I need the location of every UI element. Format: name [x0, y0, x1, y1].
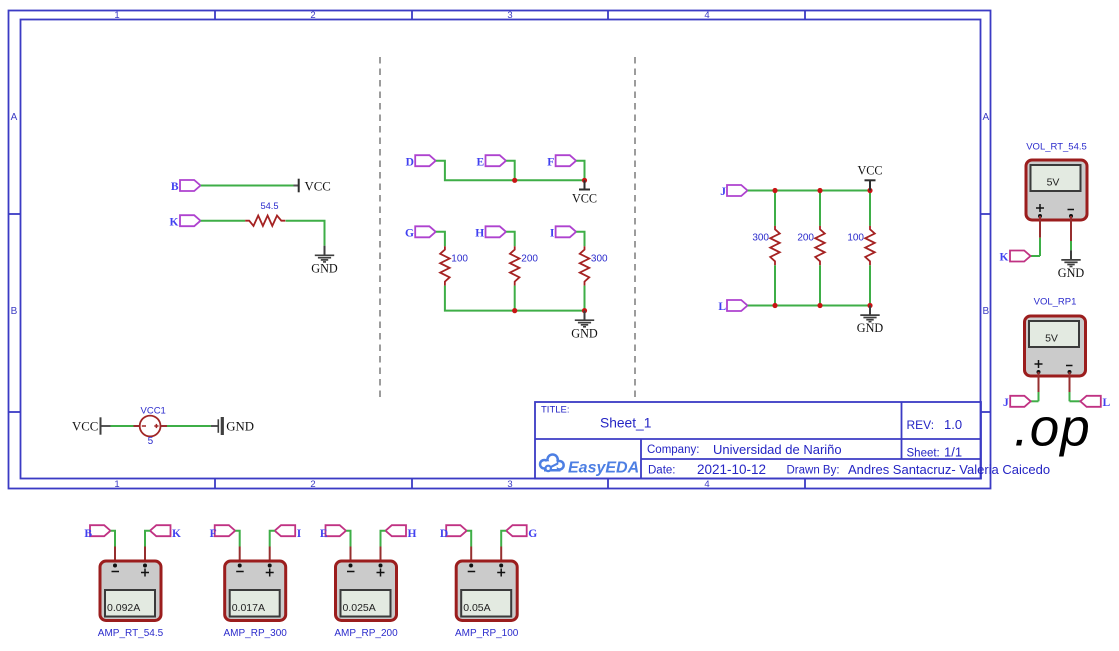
svg-text:I: I [550, 228, 555, 240]
svg-text:2: 2 [310, 10, 315, 21]
svg-text:J: J [1003, 397, 1009, 409]
svg-text:GND: GND [1058, 266, 1085, 280]
svg-text:VCC: VCC [305, 180, 331, 194]
svg-text:G: G [528, 528, 537, 540]
svg-text:100: 100 [847, 232, 864, 243]
svg-text:4: 4 [704, 479, 709, 490]
svg-text:54.5: 54.5 [260, 201, 278, 211]
svg-text:1/1: 1/1 [944, 445, 962, 460]
svg-text:VCC: VCC [857, 164, 882, 178]
svg-text:B: B [84, 528, 92, 540]
svg-text:2: 2 [310, 479, 315, 490]
svg-text:.op: .op [1014, 399, 1091, 458]
svg-text:B: B [171, 181, 179, 193]
svg-text:Sheet_1: Sheet_1 [600, 415, 651, 430]
svg-text:TITLE:: TITLE: [541, 405, 570, 416]
svg-text:E: E [477, 156, 485, 168]
svg-text:300: 300 [591, 254, 608, 265]
svg-text:4: 4 [704, 10, 709, 21]
svg-text:GND: GND [226, 420, 254, 434]
svg-text:K: K [1000, 252, 1009, 264]
svg-text:EasyEDA: EasyEDA [568, 460, 639, 477]
svg-text:B: B [11, 306, 18, 317]
svg-text:F: F [210, 528, 217, 540]
svg-text:VCC1: VCC1 [141, 406, 166, 417]
svg-text:200: 200 [797, 232, 814, 243]
svg-text:Date:: Date: [648, 464, 676, 476]
svg-text:H: H [408, 528, 417, 540]
svg-text:E: E [320, 528, 328, 540]
svg-text:L: L [1103, 397, 1111, 409]
svg-text:0.05A: 0.05A [463, 602, 490, 614]
svg-text:A: A [982, 112, 989, 123]
svg-text:AMP_RT_54.5: AMP_RT_54.5 [98, 628, 164, 639]
svg-text:1.0: 1.0 [944, 417, 962, 432]
svg-text:VOL_RT_54.5: VOL_RT_54.5 [1026, 141, 1087, 152]
svg-text:I: I [297, 528, 302, 540]
svg-text:GND: GND [857, 321, 884, 335]
svg-text:GND: GND [571, 326, 598, 340]
svg-text:K: K [170, 216, 179, 228]
svg-text:J: J [720, 186, 726, 198]
svg-text:0.025A: 0.025A [343, 602, 376, 614]
svg-text:F: F [547, 156, 554, 168]
svg-text:A: A [11, 112, 18, 123]
svg-text:VCC: VCC [572, 192, 597, 206]
svg-text:K: K [172, 528, 181, 540]
svg-text:1: 1 [114, 10, 119, 21]
svg-text:0.092A: 0.092A [107, 602, 140, 614]
svg-text:Sheet:: Sheet: [907, 448, 940, 460]
svg-text:AMP_RP_100: AMP_RP_100 [455, 628, 519, 639]
svg-text:3: 3 [507, 479, 512, 490]
svg-text:Universidad de Nariño: Universidad de Nariño [713, 442, 842, 457]
svg-text:200: 200 [521, 254, 538, 265]
svg-text:AMP_RP_200: AMP_RP_200 [334, 628, 398, 639]
svg-text:D: D [440, 528, 448, 540]
svg-text:H: H [475, 228, 484, 240]
svg-text:Drawn By:: Drawn By: [787, 464, 840, 476]
svg-text:REV:: REV: [907, 418, 935, 432]
svg-text:100: 100 [451, 254, 468, 265]
svg-text:D: D [406, 156, 414, 168]
svg-text:Company:: Company: [647, 444, 699, 456]
svg-text:AMP_RP_300: AMP_RP_300 [224, 628, 288, 639]
svg-text:B: B [982, 306, 989, 317]
svg-text:G: G [405, 228, 414, 240]
svg-text:300: 300 [752, 232, 769, 243]
svg-text:5V: 5V [1047, 177, 1060, 189]
svg-text:2021-10-12: 2021-10-12 [697, 462, 766, 477]
svg-text:VOL_RP1: VOL_RP1 [1034, 296, 1077, 307]
svg-text:5: 5 [148, 436, 154, 447]
svg-text:5V: 5V [1045, 333, 1058, 345]
svg-text:1: 1 [114, 479, 119, 490]
svg-text:L: L [718, 301, 726, 313]
svg-text:VCC: VCC [72, 420, 98, 434]
svg-text:Andres Santacruz- Valeria Caic: Andres Santacruz- Valeria Caicedo [848, 462, 1050, 477]
svg-text:3: 3 [507, 10, 512, 21]
svg-text:GND: GND [311, 261, 338, 275]
svg-text:0.017A: 0.017A [232, 602, 265, 614]
